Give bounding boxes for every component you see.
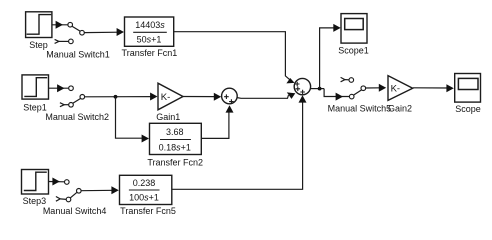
wire Manual Switch5 to Gain2 [365, 84, 386, 92]
source block Step3 [22, 170, 49, 195]
svg-text:100s+1: 100s+1 [129, 193, 159, 203]
wire junction to Scope1 [320, 24, 341, 89]
label Manual Switch1 [46, 50, 110, 60]
label Scope [455, 104, 481, 114]
svg-text:14403s: 14403s [135, 20, 165, 30]
svg-text:K-: K- [161, 92, 171, 103]
label Step1 [23, 103, 47, 113]
svg-text:Step1: Step1 [23, 103, 47, 113]
wire Step to Manual Switch1 [52, 21, 68, 29]
wire Manual Switch2 to Gain1 [84, 93, 157, 101]
source block Step [26, 12, 52, 38]
manual switch Manual Switch5 [341, 77, 366, 98]
wire Step3 to Manual Switch4 [49, 178, 65, 186]
svg-text:Step: Step [29, 40, 48, 50]
gain block Gain2 [388, 76, 413, 101]
wire junction to Manual Switch5 [324, 89, 349, 101]
svg-text:Transfer Fcn1: Transfer Fcn1 [122, 48, 178, 58]
scope block Scope [455, 74, 481, 103]
manual switch Manual Switch2 [60, 86, 85, 107]
svg-text:Scope: Scope [455, 104, 481, 114]
label Gain1 [156, 112, 180, 122]
svg-text:Gain2: Gain2 [388, 104, 412, 114]
source block Step1 [22, 75, 49, 99]
sum block Add [222, 88, 238, 104]
svg-text:Transfer Fcn2: Transfer Fcn2 [147, 157, 203, 167]
wire Gain1 to sum Add [183, 93, 221, 101]
label Manual Switch2 [45, 112, 109, 122]
label Transfer Fcn5 [120, 206, 176, 216]
wire Transfer Fcn1 to sum Add1 top input [174, 32, 295, 84]
svg-text:3.68: 3.68 [166, 127, 184, 137]
svg-text:0.18s+1: 0.18s+1 [159, 143, 191, 153]
svg-text:Step3: Step3 [23, 196, 47, 206]
label Scope1 [338, 45, 369, 55]
label Manual Switch4 [43, 206, 107, 216]
svg-text:K-: K- [391, 83, 401, 94]
wire sum Add to sum Add1 [237, 92, 295, 99]
gain block Gain1 [158, 83, 183, 110]
label Manual Switch5 [328, 104, 392, 114]
junction node after Add1 [318, 87, 322, 91]
transfer function Transfer Fcn1 [125, 17, 174, 46]
wire Manual Switch1 to Transfer Fcn1 [84, 28, 124, 36]
svg-text:Manual Switch2: Manual Switch2 [45, 112, 109, 122]
svg-text:50s+1: 50s+1 [137, 35, 162, 45]
wire Transfer Fcn5 to sum Add1 bottom input [172, 95, 307, 189]
svg-text:Manual Switch1: Manual Switch1 [46, 50, 110, 60]
wire Gain2 to Scope [413, 84, 454, 92]
wire Manual Switch4 to Transfer Fcn5 [81, 186, 119, 194]
sum block Add1 [294, 78, 310, 94]
wire sum Add1 output to junction [311, 88, 325, 90]
wire Step1 to Manual Switch2 [49, 84, 69, 92]
label Step [29, 40, 48, 50]
wire Transfer Fcn2 to sum Add bottom input [201, 105, 233, 138]
label Transfer Fcn2 [147, 157, 203, 167]
label Step3 [23, 196, 47, 206]
scope block Scope1 [341, 14, 367, 43]
junction node after Manual Switch2 [114, 95, 118, 99]
transfer function Transfer Fcn2 [150, 123, 202, 154]
manual switch Manual Switch1 [55, 22, 85, 43]
label Transfer Fcn1 [122, 48, 178, 58]
label Gain2 [388, 104, 412, 114]
svg-text:Transfer Fcn5: Transfer Fcn5 [120, 206, 176, 216]
svg-text:Manual Switch4: Manual Switch4 [43, 206, 107, 216]
manual switch Manual Switch4 [56, 180, 81, 202]
svg-text:Manual Switch5: Manual Switch5 [328, 104, 392, 114]
transfer function Transfer Fcn5 [120, 175, 172, 204]
svg-text:Gain1: Gain1 [156, 112, 180, 122]
svg-text:Scope1: Scope1 [338, 45, 369, 55]
wire branch to Transfer Fcn2 [116, 97, 150, 143]
svg-text:0.238: 0.238 [133, 178, 156, 188]
